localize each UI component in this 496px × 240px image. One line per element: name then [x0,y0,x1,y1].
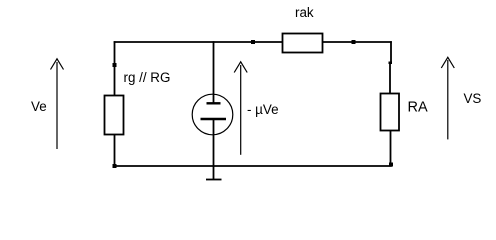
wire top-right horizontal [323,41,392,43]
node on top wire right of rak [352,40,356,44]
wire bottom horizontal [114,165,392,167]
arrow Ve [51,59,64,149]
resistor rak [283,34,323,53]
svg-text:- µVe: - µVe [247,102,279,117]
svg-text:rg // RG: rg // RG [124,70,171,85]
wire middle vertical top [213,41,215,94]
arrow VS [441,57,454,139]
wire left vertical bottom [114,135,116,167]
resistor RA [381,94,400,131]
source U (controlled voltage source) [192,94,233,135]
svg-text:rak: rak [295,5,314,20]
node bottom-right corner [389,163,393,167]
wire middle vertical bottom [213,135,215,166]
junction tick on right vertical [389,62,393,65]
wire right vertical top [390,41,392,62]
node on left wire [113,63,117,67]
svg-text:RA: RA [408,100,428,116]
arrow -uVe [234,62,247,155]
node bottom-left corner [113,164,117,168]
resistor rg // RG [105,96,124,135]
node on top wire left of rak [251,40,255,44]
wire top-left horizontal [114,41,283,43]
wire left vertical top [114,41,116,95]
svg-text:Ve: Ve [31,99,47,114]
wire right vertical mid [389,63,391,94]
ground [206,166,222,180]
svg-text:VS: VS [464,91,482,106]
wire right vertical bottom [390,131,392,167]
